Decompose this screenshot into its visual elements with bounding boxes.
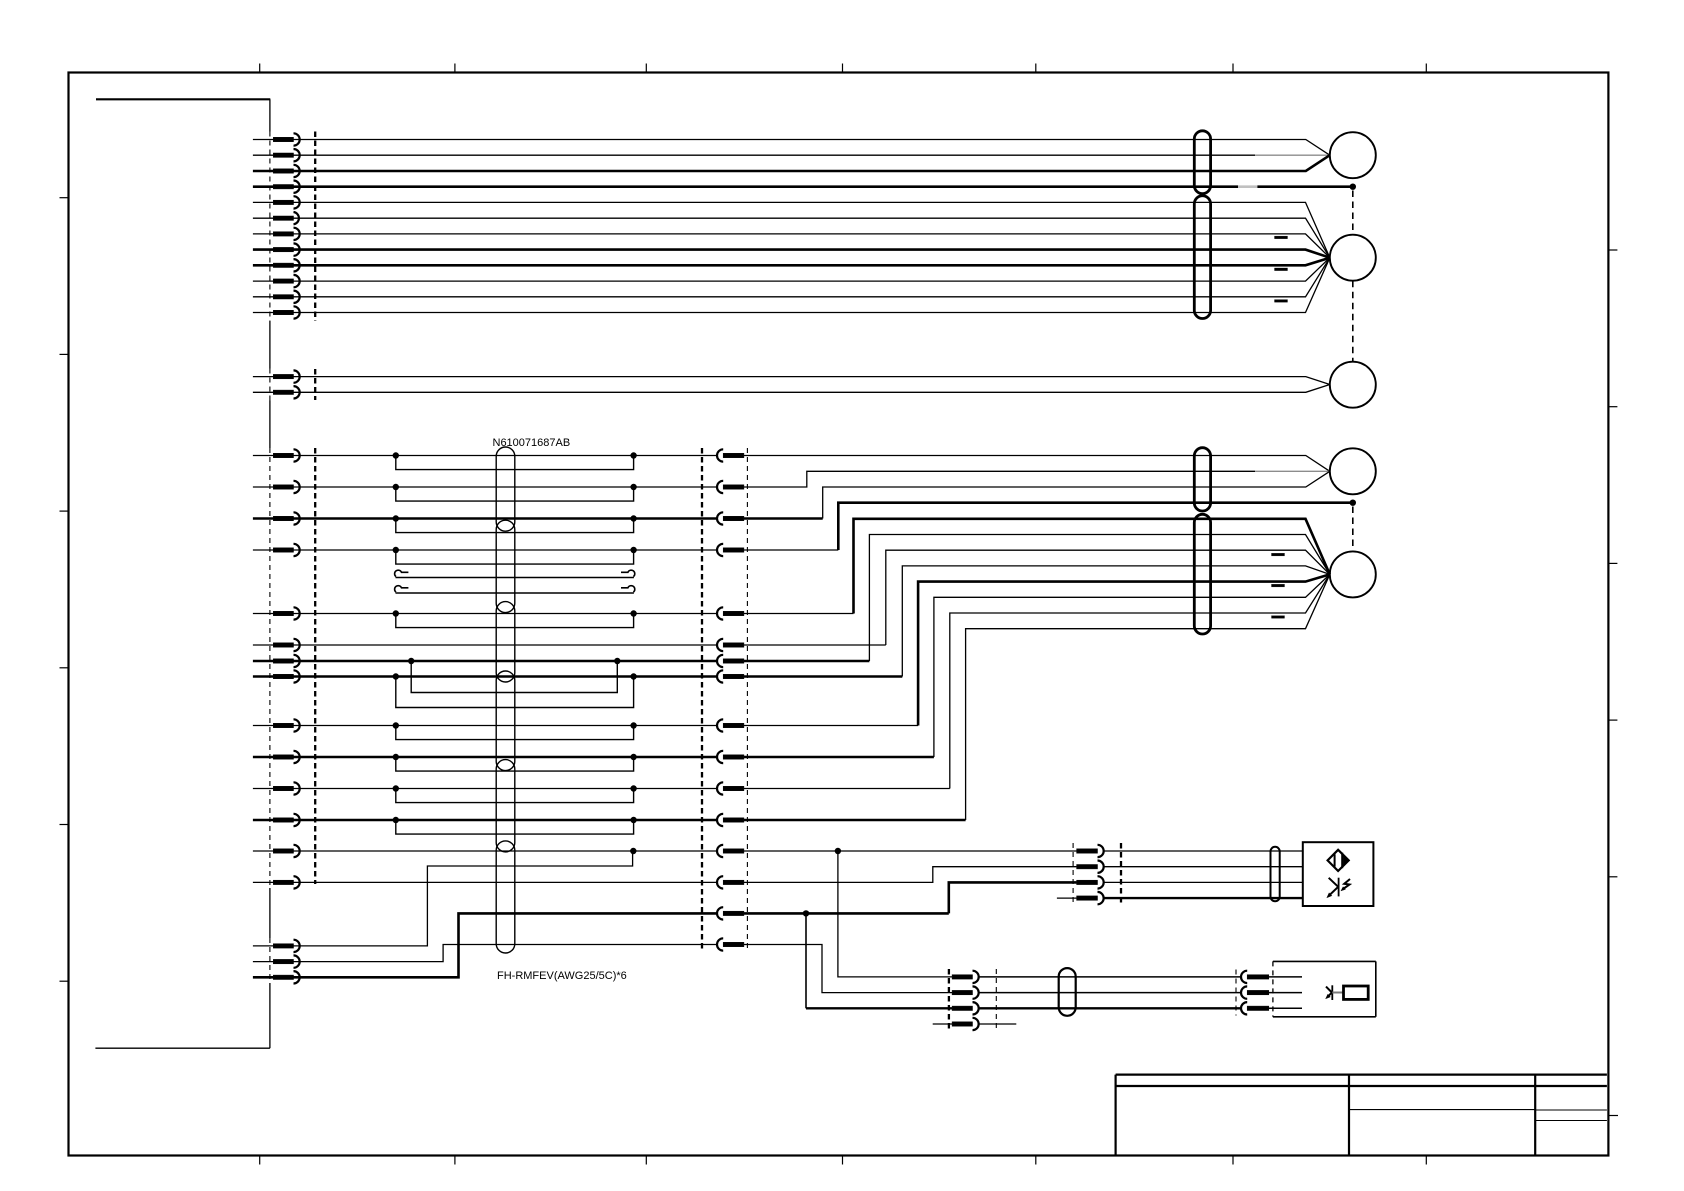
wire net913 step-up to sensor terminal pin3: [949, 882, 1077, 913]
sensor terminal T1 boundary dashed line left: [1072, 843, 1074, 905]
sensor terminal T2 cable-side dashed line left: [948, 969, 950, 1030]
wire CN1-1 to motor M1: [294, 140, 1330, 156]
connector CN3 pin 2: [253, 481, 300, 493]
wire CN1-6 to motor M2: [294, 218, 1330, 258]
wire CN2-1 to motor M3: [294, 377, 1330, 385]
control unit block top edge: [96, 98, 270, 100]
wire CN1-8 to motor M2: [294, 250, 1330, 258]
connector CN5 pin 15: [717, 907, 744, 919]
junction dot node on net y913 branch to B3: [803, 910, 809, 916]
dashed link N2 to motor M5: [1352, 507, 1354, 552]
wire CN6-1 into PH2: [1269, 976, 1302, 978]
cable N610071687AB shield segment 4: [496, 671, 515, 771]
connector CN6 pin 1: [1241, 971, 1269, 983]
connector CN2 pin 2: [253, 386, 300, 398]
motor M3: [1330, 362, 1376, 408]
connector CN1 pin 5: [253, 196, 300, 208]
sensor terminal T2 pin 1: [952, 971, 979, 983]
wire net487 step-up to y471 motor M4 middle: [744, 471, 1330, 487]
connector CN6 boundary dashed line: [1235, 970, 1237, 1016]
wire T2-2 to photo sensor PH2: [979, 992, 1241, 994]
connector CN1 pin 4: [253, 181, 300, 193]
cable shield B2: [1194, 514, 1210, 634]
wire net645 step-up to y549 motor M5: [744, 550, 1330, 645]
connector CN1 pin 3: [253, 165, 300, 177]
connector CN1 pin 2: [253, 149, 300, 161]
wire net455 CN5 to motor M4: [744, 456, 1330, 472]
connector CN1 pin 12: [253, 306, 300, 318]
connector CN3 pin 11: [253, 782, 300, 794]
connector CN1 pin 1: [253, 133, 300, 145]
wire T2-1 to photo sensor PH2: [979, 976, 1241, 978]
border zone tick marks left: [60, 198, 69, 982]
connector CN5 pin 2: [717, 481, 744, 493]
connector CN5 pin 6: [717, 639, 744, 651]
dashed link motor M2 to motor M3: [1352, 281, 1354, 362]
connector CN1 pin 11: [253, 291, 300, 303]
sensor terminal T1 pin 2: [1077, 861, 1104, 873]
unused cable conductor with coiled ends y593: [395, 586, 635, 593]
title block right column divider 1: [1535, 1109, 1607, 1111]
wire net661 step-up to y534 motor M5: [744, 535, 1330, 662]
twisted pair return loop on net y661 (deep): [408, 658, 621, 693]
wire CN3-6 to CN5: [294, 644, 718, 646]
cable N610071687AB shield segment 6: [496, 841, 515, 953]
connector CN5 pin 10: [717, 751, 744, 763]
sensor terminal T2 pin 2: [952, 986, 979, 998]
wire CN1-7 to motor M2: [294, 234, 1330, 258]
cable N610071687AB shield segment 3: [496, 602, 515, 682]
wire CN3-5 to CN5: [294, 613, 718, 615]
title block outline: [1116, 1075, 1607, 1156]
svg-text:FH-RMFEV(AWG25/5C)*6: FH-RMFEV(AWG25/5C)*6: [497, 970, 627, 982]
wire T1-1 to photo sensor PH1: [1104, 850, 1303, 852]
wire CN1-9 to motor M2: [294, 258, 1330, 266]
connector CN3 pin 13: [253, 845, 300, 857]
motor M5: [1330, 551, 1376, 597]
sensor terminal T1 pin 4: [1077, 892, 1104, 904]
wire branch net913 down to photo sensor 2 feed B3: [806, 913, 952, 1008]
wire CN4-3 riser to net y913: [294, 913, 718, 977]
wire CN1-12 to motor M2: [294, 258, 1330, 313]
connector CN3 boundary dashed line: [269, 448, 271, 888]
sensor terminal T1 pin 3: [1077, 876, 1104, 888]
sensor terminal T1 cable-side dashed line right: [1120, 843, 1122, 905]
connector CN3 pin 12: [253, 814, 300, 826]
title block right edge tick: [1608, 1115, 1618, 1117]
junction dot node on net y851 branch to B1: [835, 848, 841, 854]
control unit block right edge solid segments: [269, 99, 271, 1048]
junction dot node N2: [1350, 500, 1356, 506]
wire number tag above M2 wire 7: [1275, 236, 1288, 239]
cable N610071687AB shield segment 2: [496, 520, 515, 612]
connector CN3 pin 10: [253, 751, 300, 763]
wire CN6-3 into PH2: [1269, 1007, 1302, 1009]
wire number tag motor M5 wire c: [1272, 616, 1285, 619]
wire branch net851 down to photo sensor 2 feed B1: [838, 851, 952, 977]
wire CN4-1 riser joining net y851: [294, 851, 633, 946]
connector CN3 pin 14: [253, 876, 300, 888]
sensor terminal T1 pin4 stub: [1057, 897, 1077, 899]
twisted pair return loop on net y550: [393, 547, 637, 564]
connector CN3 pin 1: [253, 449, 300, 461]
cable shield A2: [1194, 196, 1210, 319]
title block middle column divider: [1349, 1109, 1535, 1111]
wire CN3-12 to CN5: [294, 819, 718, 822]
motor M4: [1330, 448, 1376, 494]
motor M2: [1330, 235, 1376, 281]
connector CN5 pin 5: [717, 607, 744, 619]
twisted pair return loop on net y725: [393, 722, 637, 739]
photo sensor PH2 receiver icon: [1326, 985, 1369, 1000]
wire CN1-4 shield drain to junction: [294, 185, 1353, 188]
connector CN5 boundary dashed line: [746, 448, 748, 952]
twisted pair return loop on net y455: [393, 452, 637, 469]
wire net550 step-up to y502 junction N2: [744, 503, 1353, 550]
control unit block bottom edge: [95, 1047, 270, 1049]
wire CN3-1 to CN5: [294, 455, 718, 457]
motor M1: [1330, 132, 1376, 178]
connector CN1 boundary dashed line: [269, 132, 271, 322]
connector CN5 pin 9: [717, 719, 744, 731]
wire CN3-7 to CN5: [294, 660, 718, 663]
connector CN5 pin 11: [717, 782, 744, 794]
connector CN3 cable-side dashed line: [314, 448, 316, 884]
wire net913 CN5 to step-up: [744, 912, 949, 915]
connector CN3 pin 5: [253, 607, 300, 619]
twisted pair return loop on net y487: [393, 484, 637, 501]
cable shield S1: [1271, 847, 1280, 902]
sensor terminal T2 pin 3: [952, 1002, 979, 1014]
wire CN3-11 to CN5: [294, 788, 718, 790]
connector CN5 pin 4: [717, 544, 744, 556]
wire CN6-2 into PH2: [1269, 992, 1302, 994]
connector CN5 pin 3: [717, 512, 744, 524]
wire CN4-2 riser to net y944: [294, 945, 718, 962]
connector CN1 pin 6: [253, 212, 299, 224]
dashed link N1 to motor M2: [1352, 191, 1354, 235]
border zone tick marks bottom: [260, 1156, 1427, 1165]
unused cable conductor with coiled ends y577: [395, 570, 635, 577]
sensor terminal T1 pin 1: [1077, 845, 1104, 857]
border zone tick marks right: [1608, 250, 1617, 877]
wire net725 step-up to y579 motor M5: [744, 574, 1330, 725]
connector CN5 pin 7: [717, 655, 744, 667]
connector CN3 pin 3: [253, 512, 300, 524]
connector CN5 cable-side dashed line: [701, 448, 703, 952]
connector CN6 pin 3: [1241, 1002, 1269, 1014]
connector CN4 pin 2: [253, 955, 300, 967]
wire net676 step-up to y564 motor M5: [744, 566, 1330, 677]
wire CN2-2 to motor M3: [294, 385, 1330, 393]
twisted pair return loop on net y757: [393, 754, 637, 771]
wire CN3-14 to CN5: [294, 881, 718, 883]
twisted pair return loop on net y613: [393, 610, 637, 627]
title block right column divider 2: [1535, 1120, 1607, 1122]
wire number tag motor M5 wire b: [1272, 584, 1285, 587]
connector CN5 pin 14: [717, 876, 744, 888]
photo sensor PH1 body: [1303, 842, 1374, 906]
wire net518 step-up to y487 motor M4: [744, 471, 1330, 518]
wire number tag above M2 wire 9: [1275, 268, 1288, 271]
connector CN4 pin 3: [253, 971, 300, 983]
junction dot node N1: [1350, 184, 1356, 190]
wire number tag motor M5 wire a: [1272, 553, 1285, 556]
connector CN4 pin 1: [253, 940, 300, 952]
wire CN1-3 to motor M1: [294, 155, 1330, 171]
cable shield B1: [1194, 448, 1210, 511]
wire CN1-5 to motor M2: [294, 202, 1330, 257]
wire net851 CN5 to sensor terminal: [744, 850, 1077, 852]
wire CN3-8 to CN5: [294, 675, 718, 678]
wire net882 step-up to sensor terminal pin2: [744, 867, 1077, 883]
connector CN3 pin 9: [253, 719, 300, 731]
connector CN1 pin 9: [253, 259, 300, 271]
wire CN3-2 to CN5: [294, 486, 718, 488]
connector CN5 pin 1: [717, 449, 744, 461]
wire net820 step-up to y624 motor M5: [744, 574, 1330, 820]
sensor terminal T2 pin4 tail: [979, 1023, 1017, 1025]
photo sensor PH1 reflector icon: [1328, 850, 1349, 871]
connector CN5 pin 16: [717, 938, 744, 950]
connector CN5 pin 12: [717, 814, 744, 826]
wire T2-3 to photo sensor PH2: [979, 1007, 1241, 1009]
wire net757 step-up to y594 motor M5: [744, 574, 1330, 757]
wire CN3-13 to CN5: [294, 850, 718, 852]
twisted pair return loop on net y676 (deep): [393, 673, 637, 707]
wire CN3-10 to CN5: [294, 756, 718, 759]
connector CN1 cable-side dashed line: [314, 132, 316, 322]
wire CN1-2 to motor M1: [294, 154, 1330, 156]
connector CN1 pin 8: [253, 243, 300, 255]
wire T1-2 to photo sensor PH1: [1104, 866, 1303, 868]
sensor terminal T2 pin 4: [952, 1018, 979, 1030]
wire T1-3 to photo sensor PH1: [1104, 881, 1303, 883]
photo sensor PH2 body: [1273, 961, 1376, 1016]
wire number tag above M2 wire 11: [1275, 300, 1288, 303]
sensor terminal T2 pin4 stub: [933, 1023, 952, 1025]
border zone tick marks top: [260, 64, 1427, 73]
connector CN1 pin 10: [253, 275, 300, 287]
connector CN3 pin 4: [253, 544, 300, 556]
cable shield S2: [1059, 968, 1076, 1016]
wire net613 step-up to y518 motor M5: [744, 519, 1330, 614]
cable shield A1: [1194, 131, 1210, 194]
connector CN2 cable-side dashed line: [314, 369, 316, 400]
photo sensor PH1 receiver icon: [1327, 878, 1350, 898]
cable N610071687AB shield segment 1: [496, 447, 515, 531]
connector CN3 pin 8: [253, 670, 300, 682]
wire T1-4 to photo sensor PH1: [1104, 897, 1303, 899]
wire CN1-10 to motor M2: [294, 258, 1330, 281]
connector CN4 boundary dashed line: [269, 938, 271, 983]
wire CN3-9 to CN5: [294, 725, 718, 727]
connector CN6 pin 2: [1241, 986, 1269, 998]
twisted pair return loop on net y518: [393, 515, 637, 532]
cable N610071687AB shield segment 5: [496, 760, 515, 852]
connector CN2 boundary dashed line: [269, 369, 271, 401]
wire CN1-11 to motor M2: [294, 258, 1330, 297]
connector CN1 pin 7: [253, 228, 300, 240]
wire CN3-4 to CN5: [294, 549, 718, 551]
wire CN3-3 to CN5: [294, 517, 718, 520]
wire net788 step-up to y609 motor M5: [744, 574, 1330, 788]
connector CN2 pin 1: [253, 370, 300, 382]
sensor terminal T2 boundary dashed line right: [995, 969, 997, 1030]
twisted pair return loop on net y788: [393, 785, 637, 802]
junction dot node on net y851 left: [630, 848, 636, 854]
wire net944 CN5 to step-down feed B2: [744, 945, 952, 993]
twisted pair return loop on net y820: [393, 817, 637, 834]
connector CN5 pin 8: [717, 670, 744, 682]
connector CN3 pin 7: [253, 655, 300, 667]
connector CN5 pin 13: [717, 845, 744, 857]
connector CN3 pin 6: [253, 639, 300, 651]
